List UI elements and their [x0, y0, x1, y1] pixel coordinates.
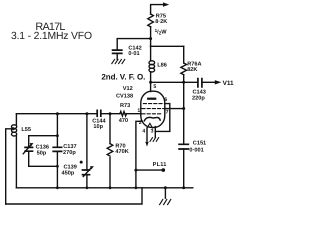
- arrow to V11: [215, 80, 222, 84]
- capacitor C137: [56, 114, 58, 148]
- grid dashes row 2: [142, 108, 165, 110]
- node C137 top junction: [56, 112, 59, 115]
- wire R75 bottom lead: [150, 27, 152, 47]
- node rail crossing R76A: [182, 81, 185, 84]
- resistor R73: [120, 112, 127, 116]
- cathode: [144, 117, 160, 120]
- capacitor C136 trimmer: [25, 147, 32, 151]
- wire grid line from tank: [16, 113, 96, 115]
- wire ground bus: [16, 187, 192, 189]
- svg-text:6: 6: [164, 97, 167, 103]
- node link dot: [56, 134, 59, 137]
- svg-text:0·001: 0·001: [189, 147, 203, 153]
- wire anode rail to C143: [151, 81, 198, 83]
- svg-text:5: 5: [153, 84, 156, 90]
- pin 4 wire heater lead: [146, 128, 148, 141]
- inductor L55: [15, 114, 17, 125]
- wire outer return bottom: [6, 188, 142, 204]
- inductor L86: [150, 46, 152, 61]
- pin 7 wire: [165, 108, 184, 110]
- pin 6 wire: [155, 104, 170, 132]
- svg-text:3.1 - 2.1MHz VFO: 3.1 - 2.1MHz VFO: [11, 31, 92, 42]
- capacitor C144: [97, 110, 101, 116]
- svg-text:0·01: 0·01: [128, 51, 139, 57]
- svg-text:2: 2: [139, 120, 142, 126]
- node C142 junction: [149, 37, 152, 40]
- capacitor C151: [179, 144, 188, 149]
- node pin7 rail junction: [182, 107, 185, 110]
- svg-text:82K: 82K: [187, 67, 197, 73]
- ground chassis: [160, 199, 171, 204]
- resistor R70: [109, 114, 111, 144]
- svg-text:450p: 450p: [62, 170, 75, 176]
- svg-text:4: 4: [142, 129, 145, 135]
- svg-text:10p: 10p: [93, 124, 103, 130]
- heater: [147, 123, 153, 128]
- ground below pin 3: [150, 138, 159, 142]
- capacitor C142: [113, 50, 122, 53]
- svg-text:V11: V11: [223, 80, 234, 87]
- svg-text:V12: V12: [123, 86, 133, 92]
- wire top feed to B+: [151, 5, 164, 14]
- wire ground stub: [164, 188, 166, 198]
- tube V12 envelope: [141, 91, 165, 127]
- node bus junctions: [56, 186, 59, 189]
- capacitor C143: [198, 79, 202, 87]
- ground below C142: [112, 59, 125, 63]
- node R70 junction: [109, 112, 112, 115]
- pin 2 wire cathode out: [136, 121, 143, 188]
- wire C136 top link: [29, 136, 58, 148]
- svg-text:3: 3: [151, 129, 154, 135]
- node PL11 terminal: [162, 168, 166, 172]
- arrow B+ right: [163, 2, 169, 6]
- wire PL11: [136, 169, 163, 171]
- svg-text:8·2K: 8·2K: [155, 19, 167, 25]
- resistor R76A: [183, 46, 185, 63]
- node PL11 junction: [134, 169, 137, 172]
- svg-text:1/2W: 1/2W: [155, 28, 168, 36]
- wire C142 link: [117, 39, 150, 51]
- svg-text:CV138: CV138: [116, 93, 133, 99]
- svg-text:L86: L86: [157, 62, 167, 68]
- wire L55 tap: [6, 129, 14, 204]
- grid dashes row 1: [143, 103, 162, 105]
- svg-text:470K: 470K: [115, 149, 128, 155]
- node anode junction: [149, 81, 152, 84]
- svg-text:PL11: PL11: [153, 162, 167, 168]
- svg-text:220p: 220p: [192, 95, 205, 101]
- svg-text:L55: L55: [21, 127, 31, 133]
- svg-text:7: 7: [166, 109, 169, 115]
- node tap dot: [12, 127, 15, 130]
- anode plate: [148, 98, 155, 100]
- wire B+ rail to R76A: [151, 45, 184, 47]
- capacitor C139 trimmer: [86, 114, 88, 170]
- svg-text:R73: R73: [120, 103, 130, 109]
- node bottom link dot: [56, 165, 59, 168]
- pin 3 wire: [154, 127, 156, 138]
- svg-text:2nd. V. F. O.: 2nd. V. F. O.: [101, 73, 145, 82]
- resistor R75: [148, 14, 154, 27]
- svg-text:270p: 270p: [63, 150, 76, 156]
- svg-text:470: 470: [119, 118, 128, 124]
- svg-text:50p: 50p: [37, 150, 47, 156]
- svg-text:C151: C151: [193, 141, 206, 147]
- grid dashes row 3: [142, 113, 161, 115]
- node C139 top junction: [85, 112, 88, 115]
